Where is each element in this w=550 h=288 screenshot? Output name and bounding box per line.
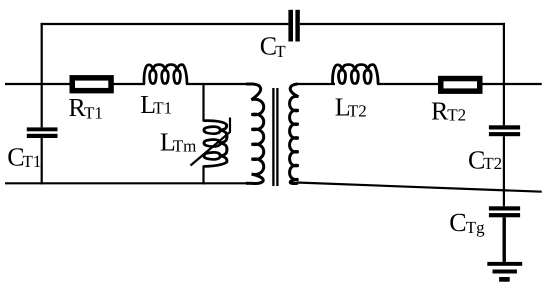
transformer core line 1 [272,88,274,186]
resistor R_T1 [72,78,111,91]
wire bottom left [5,182,252,184]
wire C_Tg to ground [503,217,506,262]
ground bar 3 [499,277,510,282]
wire bottom right slanted [297,183,542,192]
arrow through L_Tm [191,118,231,166]
svg-text:T1: T1 [84,104,103,123]
wire L_T2 to R_T2 [377,83,439,85]
wire top-right segment [300,23,505,25]
transformer winding W2 [290,84,299,184]
capacitor C_Tg plate bottom [489,213,520,217]
transformer winding W1 [246,84,264,183]
capacitor C_T1 plate top [27,127,58,131]
capacitor C_T plate right [295,10,299,42]
svg-text:T2: T2 [348,101,367,120]
capacitor C_T2 plate top [489,125,520,129]
svg-text:T: T [275,42,286,61]
wire R_T1 to L_T1 [113,83,145,85]
wire right vertical middle [503,136,505,206]
svg-text:C: C [449,208,466,237]
svg-text:Tm: Tm [173,136,197,155]
wire right vertical upper [503,23,505,125]
wire top-left segment [41,23,289,25]
wire main left [5,83,71,85]
svg-text:T2: T2 [483,154,502,173]
svg-text:Tg: Tg [466,218,485,237]
wire down to L_Tm [202,84,204,122]
svg-text:T1: T1 [153,99,172,118]
capacitor C_T2 plate bottom [489,132,520,136]
inductor L_Tm [204,121,227,167]
wire R_T2 to right end [482,83,542,85]
ground bar 1 [487,262,522,266]
wire left vertical upper [41,23,43,128]
capacitor C_T1 plate bottom [27,134,58,138]
inductor L_T2 [333,65,379,84]
wire left vertical lower [41,138,43,184]
wire transformer to L_T2 [296,83,335,85]
resistor R_T2 [441,79,480,92]
wire L_Tm to bottom wire [202,166,204,185]
wire L_T1 to transformer [186,83,250,85]
capacitor C_Tg plate top [489,206,520,210]
inductor L_T1 [144,65,187,84]
svg-text:T1: T1 [23,152,42,171]
transformer core line 2 [276,88,278,186]
svg-text:T2: T2 [447,106,466,125]
ground bar 2 [493,270,517,274]
capacitor C_T plate left [288,10,293,42]
